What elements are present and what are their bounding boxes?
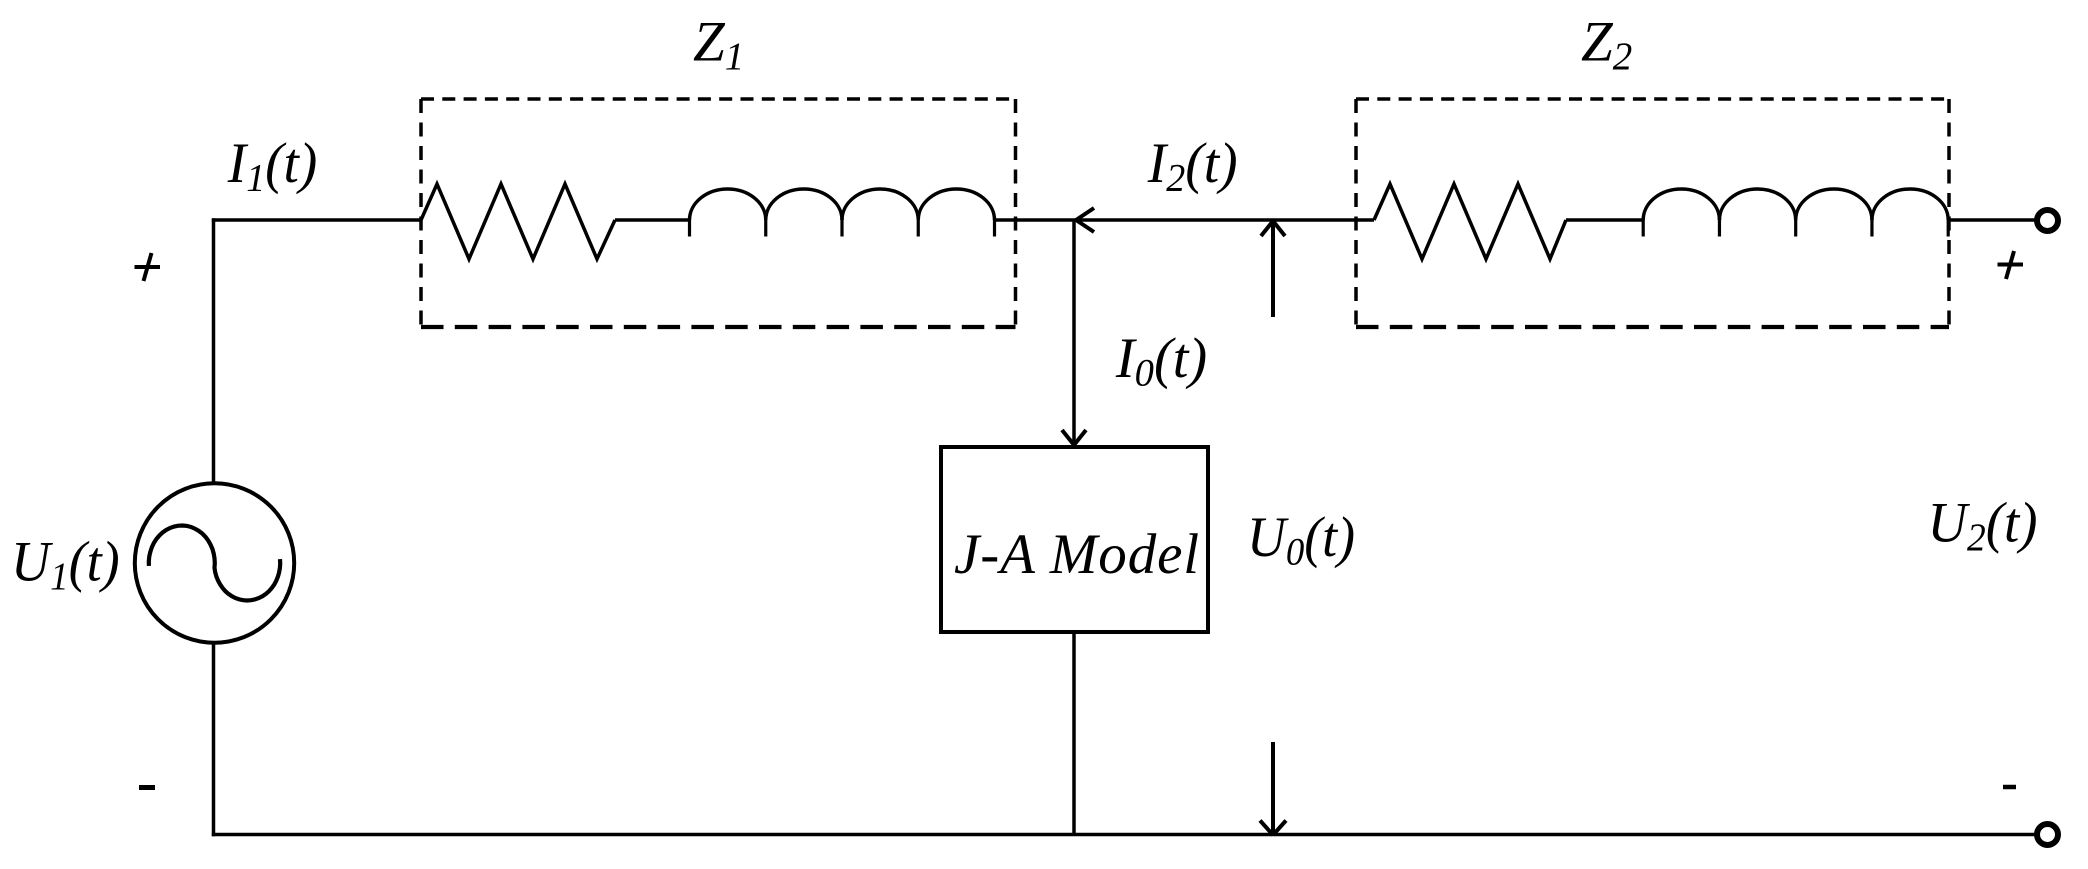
resistor R (inside Z2) xyxy=(1374,184,1566,259)
wire L1 to node A to R2 xyxy=(996,218,1374,222)
arrow U0 down to bottom wire xyxy=(1260,742,1286,835)
wire L2 to terminal xyxy=(1948,218,2035,222)
ac source U1 circle xyxy=(135,483,294,642)
dashed box impedance Z2 xyxy=(1356,99,1949,327)
svg-text:I0(t): I0(t) xyxy=(1115,327,1207,395)
svg-text:I1(t): I1(t) xyxy=(227,132,317,200)
wire node A down to J-A model xyxy=(1072,220,1076,444)
svg-text:U0(t): U0(t) xyxy=(1247,506,1355,574)
arrow I2 vertical up xyxy=(1261,221,1285,317)
svg-text:Z2: Z2 xyxy=(1581,11,1632,79)
svg-text:Z1: Z1 xyxy=(693,11,744,79)
wire between R2 and L2 xyxy=(1566,218,1643,222)
plus sign at source side xyxy=(135,253,161,281)
wire J-A model to bottom wire xyxy=(1072,632,1076,835)
wire top-left horizontal (source to Z1) xyxy=(212,218,421,222)
wire between R1 and L1 xyxy=(615,218,690,222)
wire left vertical lower (source - to bottom wire) xyxy=(212,644,216,836)
svg-text:U2(t): U2(t) xyxy=(1928,492,2038,560)
terminal top right (output +) xyxy=(2037,210,2058,231)
arrowhead I0 into J-A model xyxy=(1062,430,1086,445)
wire left vertical upper (top wire to source +) xyxy=(212,218,216,483)
svg-text:I2(t): I2(t) xyxy=(1147,132,1238,200)
inductor L (inside Z1) xyxy=(690,189,995,237)
minus sign at output terminal xyxy=(2003,785,2016,790)
plus sign at output terminal xyxy=(1998,251,2024,279)
dashed box impedance Z1 xyxy=(421,99,1016,327)
svg-text:J-A Model: J-A Model xyxy=(954,523,1200,586)
minus sign at source side xyxy=(139,785,155,790)
inductor L (inside Z2) xyxy=(1643,189,1948,237)
svg-text:U1(t): U1(t) xyxy=(11,531,120,599)
terminal bottom right (output -) xyxy=(2037,824,2058,845)
wire bottom return xyxy=(212,833,2035,837)
resistor R (inside Z1) xyxy=(421,184,615,259)
ac source sine symbol xyxy=(149,526,280,601)
J-A Model block U1 xyxy=(941,447,1208,632)
arrowhead I2 pointing left into node A xyxy=(1076,208,1094,232)
